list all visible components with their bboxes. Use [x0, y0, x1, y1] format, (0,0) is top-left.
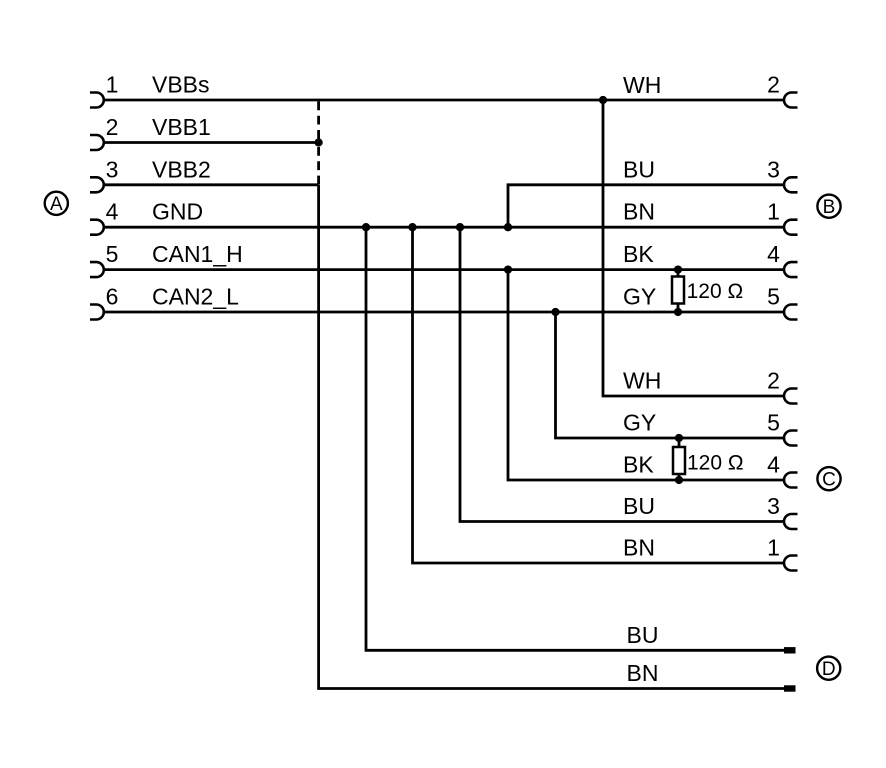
svg-text:BN: BN [627, 660, 659, 686]
svg-text:4: 4 [767, 241, 780, 267]
svg-text:6: 6 [106, 284, 119, 310]
svg-text:5: 5 [106, 241, 119, 267]
svg-text:3: 3 [767, 156, 780, 182]
svg-text:120 Ω: 120 Ω [687, 280, 744, 303]
svg-text:VBBs: VBBs [152, 72, 210, 98]
svg-text:B: B [823, 197, 836, 218]
svg-text:1: 1 [767, 535, 780, 561]
svg-text:BU: BU [623, 493, 655, 519]
svg-text:GY: GY [623, 410, 656, 436]
svg-text:3: 3 [767, 493, 780, 519]
svg-text:BU: BU [623, 156, 655, 182]
svg-text:2: 2 [767, 368, 780, 394]
svg-text:1: 1 [106, 72, 119, 98]
svg-text:CAN2_L: CAN2_L [152, 284, 239, 310]
svg-text:CAN1_H: CAN1_H [152, 241, 243, 267]
svg-text:2: 2 [767, 72, 780, 98]
svg-text:4: 4 [106, 199, 119, 225]
svg-text:A: A [50, 194, 63, 215]
svg-text:VBB2: VBB2 [152, 156, 211, 182]
svg-text:WH: WH [623, 368, 661, 394]
svg-text:BN: BN [623, 199, 655, 225]
svg-text:GY: GY [623, 284, 656, 310]
svg-text:4: 4 [767, 452, 780, 478]
svg-text:C: C [822, 470, 836, 491]
svg-text:1: 1 [767, 199, 780, 225]
svg-text:BK: BK [623, 452, 654, 478]
svg-text:2: 2 [106, 114, 119, 140]
svg-text:BN: BN [623, 535, 655, 561]
svg-text:D: D [822, 659, 836, 680]
svg-text:5: 5 [767, 410, 780, 436]
svg-text:BK: BK [623, 241, 654, 267]
svg-text:5: 5 [767, 284, 780, 310]
svg-text:WH: WH [623, 72, 661, 98]
svg-text:BU: BU [627, 622, 659, 648]
svg-text:120 Ω: 120 Ω [687, 451, 744, 474]
svg-text:GND: GND [152, 199, 203, 225]
svg-text:3: 3 [106, 156, 119, 182]
svg-text:VBB1: VBB1 [152, 114, 211, 140]
